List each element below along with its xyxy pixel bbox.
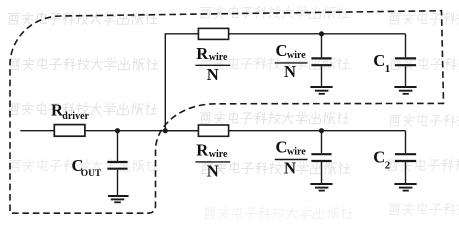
svg-text:N: N [284,158,296,177]
wire riser to top branch [165,34,198,131]
svg-text:wire: wire [209,149,228,160]
capacitor C_wire/N bottom [275,138,332,178]
wire C_OUT to ground [117,170,119,195]
wire down to C2 [405,131,407,153]
capacitor C_OUT [72,156,128,179]
wire bottom branch to C2 [229,130,406,132]
resistor R_wire/N top [195,28,230,84]
node branch junction [163,128,168,133]
dashed region boundary [10,11,444,214]
ground top C_wire [310,87,332,94]
wire top C_wire to ground [321,66,323,86]
svg-text:wire: wire [209,52,228,63]
node C_OUT junction [115,128,120,133]
svg-text:wire: wire [287,147,306,158]
svg-text:R: R [196,44,209,63]
wire to C_OUT [117,131,119,161]
wire down to C1 [405,34,407,58]
svg-text:wire: wire [287,50,306,61]
wire C2 to ground [405,162,407,183]
wire top branch to C1 [229,33,406,35]
svg-text:C: C [276,41,288,60]
node top C_wire junction [319,31,324,36]
wire input segment [20,130,54,132]
ground C1 [394,87,416,94]
capacitor C2 [373,148,416,172]
wire junction to bottom resistor [165,130,198,132]
capacitor C_wire/N top [275,41,332,81]
svg-text:C: C [276,138,288,157]
svg-text:R: R [196,141,209,160]
wire to bottom C_wire [321,131,323,153]
svg-text:N: N [284,62,296,81]
svg-text:2: 2 [385,160,391,172]
svg-text:driver: driver [62,111,89,122]
svg-text:N: N [207,162,219,181]
capacitor C1 [373,51,416,75]
ground C2 [394,184,416,191]
ground bottom C_wire [310,184,332,191]
svg-text:N: N [207,65,219,84]
wire C1 to ground [405,66,407,86]
wire bottom C_wire to ground [321,162,323,183]
resistor R_driver [51,101,90,137]
wire to top C_wire [321,34,323,58]
svg-text:OUT: OUT [81,169,102,179]
svg-text:1: 1 [385,63,391,75]
svg-text:C: C [373,148,385,167]
svg-text:C: C [373,51,385,70]
node bottom C_wire junction [319,128,324,133]
wire R_driver to branch junction [85,130,198,132]
resistor R_wire/N bottom [195,125,230,181]
ground C_OUT [108,196,129,202]
